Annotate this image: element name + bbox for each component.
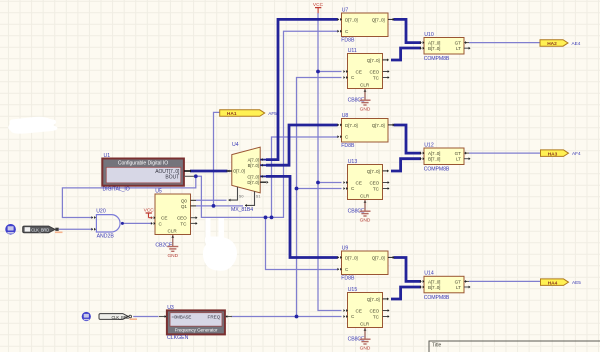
- comparator U14 (COMPM8B): [420, 271, 471, 301]
- ground: [360, 100, 371, 112]
- svg-text:U4: U4: [232, 142, 239, 148]
- svg-text:C[7..0]: C[7..0]: [247, 174, 258, 179]
- svg-text:CLR: CLR: [360, 322, 370, 327]
- node: junction clock/FREQ wire: [295, 315, 299, 319]
- svg-text:Q[7..0]: Q[7..0]: [367, 169, 380, 174]
- IC U3 Frequency Generator (CLKGEN): [159, 305, 232, 341]
- svg-text:D[7..0]: D[7..0]: [247, 180, 258, 185]
- svg-text:CEO: CEO: [369, 70, 379, 75]
- node: junction latch net/U8.C riser: [270, 216, 274, 220]
- wire: U10.GT to port HA2: [469, 42, 540, 44]
- node: junction clock/U13.C: [295, 187, 299, 191]
- svg-text:B[7..0]: B[7..0]: [428, 285, 440, 290]
- svg-text:CLR: CLR: [168, 229, 178, 234]
- svg-text:Q[7..0]: Q[7..0]: [367, 297, 380, 302]
- svg-text:GND: GND: [167, 253, 178, 259]
- AND gate U20 (AND2B): [91, 208, 120, 239]
- node: junction latch net/U9.C riser: [264, 216, 268, 220]
- svg-text:TC: TC: [180, 222, 187, 227]
- svg-text:HA4: HA4: [548, 280, 558, 286]
- port HA2: [540, 40, 581, 47]
- power VCC (top): [313, 2, 324, 13]
- svg-text:Q[7..0]: Q[7..0]: [372, 17, 385, 22]
- svg-text:U11: U11: [348, 48, 357, 54]
- svg-text:FREQ: FREQ: [208, 315, 221, 320]
- svg-text:CE: CE: [161, 216, 167, 221]
- svg-text:U5: U5: [155, 188, 162, 194]
- counter U13 (CB8CE): [343, 159, 389, 211]
- svg-text:D[7..0]: D[7..0]: [345, 123, 357, 128]
- svg-text:D[7..0]: D[7..0]: [345, 17, 357, 22]
- svg-text:GND: GND: [360, 107, 371, 113]
- wire: VCC vertical distribution net: [318, 13, 342, 311]
- node: junction Q1/HA1 riser: [212, 204, 216, 208]
- wire: DIGITAL_IO net from BOUT to AND gate input: [62, 176, 195, 217]
- instrument icon (upper scope): [5, 224, 16, 235]
- svg-text:AF5: AF5: [268, 111, 277, 116]
- svg-text:COMPM8B: COMPM8B: [424, 295, 450, 301]
- svg-text:HA1: HA1: [227, 111, 237, 117]
- svg-text:TC: TC: [373, 187, 380, 192]
- svg-text:CLK_BRD: CLK_BRD: [31, 228, 49, 233]
- flip-flop U7 (FD8B): [337, 7, 394, 43]
- svg-text:FD8B: FD8B: [341, 38, 355, 44]
- svg-text:CEO: CEO: [369, 309, 379, 314]
- svg-text:CLR: CLR: [360, 83, 370, 88]
- flip-flop U9 (FD8B): [337, 245, 394, 281]
- svg-text:COMPM8B: COMPM8B: [424, 56, 450, 62]
- white patch plug-shaped: [203, 218, 237, 271]
- bus: mux C input to U9.D: [266, 176, 338, 257]
- svg-text:TC: TC: [373, 315, 380, 320]
- wire: AND gate output to U5.C: [122, 222, 151, 224]
- port HA4: [541, 279, 582, 286]
- svg-text:U7: U7: [342, 7, 349, 13]
- power VCC (at U5): [144, 208, 155, 218]
- svg-text:U10: U10: [424, 32, 434, 38]
- svg-text:AE5: AE5: [572, 280, 581, 285]
- svg-text:MX_81B4: MX_81B4: [231, 207, 253, 213]
- white patch left: [8, 117, 57, 134]
- counter U11 (CB8CE): [343, 48, 389, 100]
- bus: U7.Q to U10.A: [394, 19, 422, 42]
- mux U4 (MX_81B4): [227, 142, 269, 213]
- svg-text:AND2B: AND2B: [97, 234, 115, 240]
- svg-text:S0: S0: [239, 195, 244, 199]
- bus: U13.Q to U12.B: [391, 159, 421, 171]
- svg-text:U15: U15: [348, 287, 358, 293]
- svg-text:A[7..0]: A[7..0]: [428, 41, 440, 46]
- wire: VCC branch to U13 CE: [318, 182, 342, 184]
- port HA3: [541, 150, 581, 157]
- svg-text:CLKGEN: CLKGEN: [167, 335, 189, 341]
- svg-text:B[7..0]: B[7..0]: [428, 46, 440, 51]
- svg-text:Title: Title: [432, 343, 441, 349]
- wire: lower CLK_BRD probe to U3 input: [133, 316, 158, 318]
- wire: riser Q1 to port HA1: [214, 112, 220, 205]
- counter U15 (CB8CE): [343, 287, 389, 339]
- svg-text:Q[7..0]: Q[7..0]: [372, 255, 385, 260]
- bus: U11.Q to U10.B: [391, 48, 421, 60]
- svg-text:CE: CE: [356, 181, 362, 186]
- svg-text:U1: U1: [104, 153, 111, 159]
- svg-text:B[7..0]: B[7..0]: [248, 163, 259, 168]
- wire: U14.GT to port HA4: [469, 280, 541, 282]
- probe CLK_BRD (lower, light): [99, 314, 137, 320]
- wire: riser to U9.C: [266, 217, 338, 269]
- svg-text:AF4: AF4: [572, 151, 581, 156]
- svg-text:HA3: HA3: [548, 151, 558, 157]
- ground: [167, 247, 178, 259]
- instrument icon (lower scope): [82, 312, 91, 321]
- wire: Q1 to mux S1: [196, 205, 243, 207]
- svg-text:GT: GT: [455, 279, 462, 284]
- comparator U10 (COMPM8B): [420, 32, 471, 62]
- wire: riser to U8.C: [272, 137, 338, 217]
- svg-text:A[7..0]: A[7..0]: [428, 279, 440, 284]
- svg-text:U3: U3: [167, 305, 174, 311]
- svg-text:BOUT: BOUT: [165, 175, 179, 181]
- wire: Q0 to mux S0: [196, 199, 227, 201]
- svg-text:A[7..0]: A[7..0]: [248, 158, 259, 163]
- svg-text:=0MBASE: =0MBASE: [172, 315, 192, 320]
- wire: clock branch to U13 C: [297, 188, 342, 190]
- node: junction at gate output: [121, 222, 124, 225]
- comparator U12 (COMPM8B): [420, 142, 471, 172]
- svg-text:AE4: AE4: [572, 41, 581, 46]
- svg-text:CEO: CEO: [177, 216, 187, 221]
- svg-text:COMPM8B: COMPM8B: [424, 167, 450, 173]
- svg-text:Q[7..0]: Q[7..0]: [372, 123, 385, 128]
- svg-text:GT: GT: [455, 151, 462, 156]
- bus: U8.Q to U12.A: [394, 125, 422, 153]
- svg-text:U20: U20: [96, 208, 106, 214]
- wire: FREQ clock net from U3 to U15.C: [231, 316, 342, 318]
- wire: BOUT latch-enable net horizontal run: [196, 31, 338, 217]
- bus: mux A input up to U7.D: [266, 19, 338, 159]
- wire: CLK_BRD probe to AND gate input2: [59, 228, 93, 230]
- svg-text:D[7..0]: D[7..0]: [345, 255, 357, 260]
- bus: AOUT[7..0] from U1 to mux U4: [190, 170, 228, 173]
- bus: U15.Q to U14.B: [391, 287, 421, 299]
- bus: mux B input to U8.D: [266, 125, 338, 165]
- svg-text:CE: CE: [356, 309, 362, 314]
- wire: U12.GT to port HA3: [469, 152, 541, 154]
- svg-text:FD8B: FD8B: [341, 143, 355, 149]
- svg-text:U14: U14: [424, 271, 434, 277]
- svg-text:HA2: HA2: [547, 41, 557, 47]
- wire: clock riser to U11.C / U13.C: [297, 78, 342, 317]
- IC U1 Configurable Digital IO: [102, 153, 194, 186]
- node: junction VCC/U11.CE: [316, 70, 320, 74]
- svg-text:DIGITAL_IO: DIGITAL_IO: [103, 186, 130, 192]
- svg-text:U13: U13: [348, 159, 358, 165]
- svg-text:LT: LT: [456, 157, 461, 162]
- svg-text:CB2CE: CB2CE: [155, 242, 172, 248]
- svg-text:Frequency Generator: Frequency Generator: [175, 327, 218, 332]
- svg-text:U12: U12: [424, 142, 434, 148]
- svg-text:O[7..0]: O[7..0]: [233, 169, 245, 174]
- svg-text:LT: LT: [456, 46, 461, 51]
- svg-text:GT: GT: [455, 41, 462, 46]
- svg-text:A[7..0]: A[7..0]: [428, 151, 440, 156]
- node: junction at BOUT pin: [194, 174, 198, 178]
- svg-text:Q[7..0]: Q[7..0]: [367, 58, 380, 63]
- title block: [429, 341, 600, 352]
- svg-text:U9: U9: [342, 245, 349, 251]
- svg-text:CE: CE: [356, 70, 362, 75]
- svg-text:U8: U8: [342, 113, 349, 119]
- svg-text:S1: S1: [256, 195, 261, 199]
- port HA1: [220, 110, 277, 117]
- node: junction VCC/U13.CE: [316, 181, 320, 185]
- flip-flop U8 (FD8B): [337, 113, 394, 149]
- svg-text:Configurable Digital IO: Configurable Digital IO: [118, 160, 168, 166]
- svg-text:GND: GND: [360, 218, 371, 224]
- svg-text:TC: TC: [373, 76, 380, 81]
- svg-text:CLK_BRD: CLK_BRD: [112, 315, 130, 320]
- svg-text:Q1: Q1: [181, 204, 188, 209]
- ground: [360, 339, 371, 351]
- svg-text:FD8B: FD8B: [341, 276, 355, 282]
- counter U5 (CB2CE): [151, 188, 198, 248]
- svg-text:B[7..0]: B[7..0]: [428, 157, 440, 162]
- svg-text:CEO: CEO: [369, 181, 379, 186]
- svg-text:Q0: Q0: [181, 198, 188, 203]
- probe CLK_BRD (upper, dark): [23, 226, 63, 233]
- ground: [360, 211, 371, 223]
- svg-text:GND: GND: [360, 346, 371, 352]
- bus: U9.Q to U14.A: [394, 258, 422, 282]
- svg-text:CLR: CLR: [360, 194, 370, 199]
- wire: VCC branch to U11 CE: [318, 71, 342, 73]
- svg-text:LT: LT: [456, 285, 461, 290]
